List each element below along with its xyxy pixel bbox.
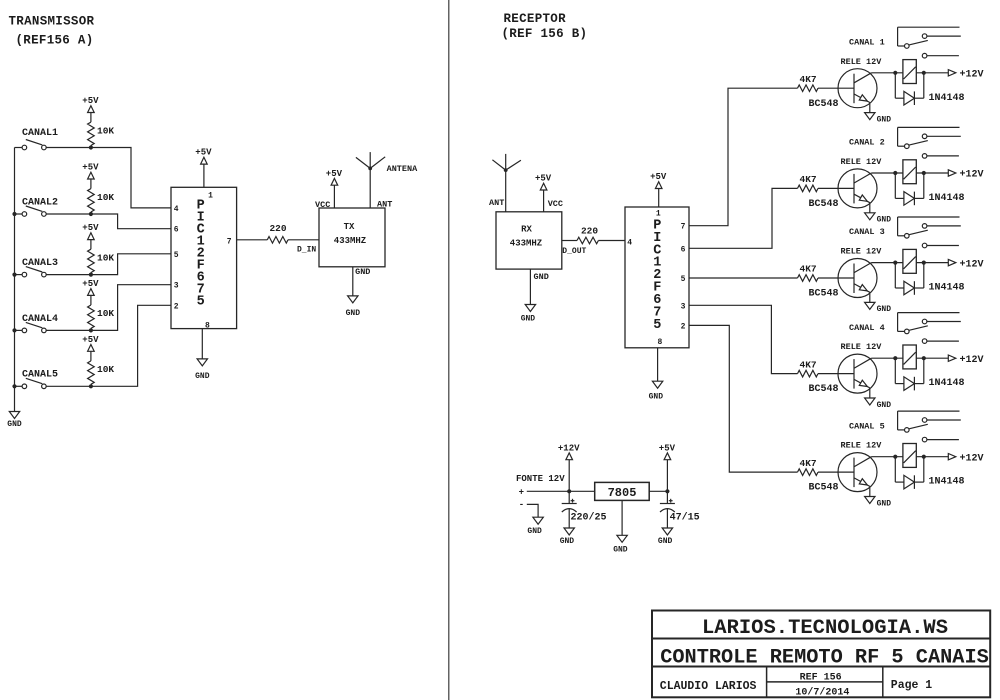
wire 4K7 to transistor base Q4 — [818, 373, 854, 375]
svg-text:GND: GND — [521, 315, 536, 324]
wire Q1 emitter to ground — [869, 103, 871, 113]
svg-text:BC548: BC548 — [809, 384, 839, 395]
ground symbol at bottom of bus — [9, 412, 19, 419]
junction R2 / switch wire — [89, 212, 93, 216]
wire 4K7 to transistor base Q2 — [818, 187, 854, 189]
svg-text:ANTENA: ANTENA — [387, 164, 419, 174]
svg-text:+5V: +5V — [650, 172, 667, 182]
junction bus / CANAL4 — [12, 328, 16, 332]
wire 4K7 to transistor base Q3 — [818, 277, 854, 279]
svg-text:ANT: ANT — [489, 198, 504, 208]
wire U1 pin 7 to resistor R6 — [237, 239, 268, 241]
svg-text:1N4148: 1N4148 — [929, 283, 965, 294]
svg-text:+12V: +12V — [558, 443, 580, 453]
svg-text:CLAUDIO LARIOS: CLAUDIO LARIOS — [660, 680, 757, 693]
switch S5 CANAL5 — [22, 384, 27, 389]
resistor R6 220 — [267, 237, 288, 244]
svg-text:+5V: +5V — [82, 163, 99, 173]
svg-text:REF 156: REF 156 — [800, 673, 842, 684]
svg-text:433MHZ: 433MHZ — [510, 239, 542, 249]
wire Q5 emitter to ground — [869, 486, 871, 496]
antenna (receiver) — [505, 154, 507, 212]
flyback diode D1 1N4148 — [894, 73, 896, 98]
svg-text:+12V: +12V — [960, 453, 984, 464]
wire bus to switch CANAL1 — [15, 147, 23, 149]
svg-text:+5V: +5V — [535, 174, 552, 184]
svg-text:+5V: +5V — [82, 223, 99, 233]
junction right of relay K2 — [922, 171, 926, 175]
junction bus / CANAL3 — [12, 273, 16, 277]
title block row separator 1 — [652, 638, 990, 640]
svg-text:10K: 10K — [97, 252, 114, 263]
svg-text:4: 4 — [627, 238, 632, 247]
wire +5V flag to resistor R2 — [90, 179, 92, 189]
svg-text:4K7: 4K7 — [800, 264, 817, 275]
wire U3 ground pin down — [621, 500, 623, 535]
wire U2 pin to channel 4 driver — [689, 305, 798, 373]
IC U2 PIC 12F675 (receiver) body — [625, 207, 689, 348]
resistor R1 10K pull-up — [88, 122, 95, 145]
svg-text:BC548: BC548 — [809, 199, 839, 210]
svg-text:ANT: ANT — [377, 200, 392, 210]
resistor R4 10K pull-up — [88, 305, 95, 328]
svg-text:GND: GND — [195, 372, 210, 381]
junction right of relay K1 — [922, 71, 926, 75]
title block vertical divider 2 — [882, 667, 884, 698]
wire relay K4 to +12V arrow — [916, 357, 948, 359]
wire Q5 collector to relay K5 — [871, 456, 903, 458]
wire Q3 collector to relay K3 — [871, 262, 903, 264]
svg-text:5: 5 — [681, 275, 686, 284]
power arrow +12V channel 3 — [948, 259, 956, 265]
svg-text:6: 6 — [174, 226, 179, 235]
svg-text:7805: 7805 — [608, 486, 637, 500]
svg-text:+5V: +5V — [82, 335, 99, 345]
wire relay K3 to +12V arrow — [916, 262, 948, 264]
svg-text:5: 5 — [197, 295, 205, 310]
relay coil K3 RELE 12V — [903, 249, 916, 273]
regulator U3 7805 body — [595, 482, 650, 500]
svg-text:GND: GND — [877, 115, 892, 124]
svg-text:+12V: +12V — [960, 355, 984, 366]
ground symbol below U2 — [652, 381, 662, 388]
svg-text:10K: 10K — [97, 308, 114, 319]
svg-text:+12V: +12V — [960, 70, 984, 81]
ground symbol channel 3 — [865, 302, 875, 309]
resistor R3 10K pull-up — [88, 249, 95, 272]
resistor 4K7 channel 5 — [798, 469, 819, 476]
wire Q1 collector to relay K1 — [871, 72, 903, 74]
svg-text:7: 7 — [227, 238, 232, 247]
ground symbol below TX — [348, 296, 358, 303]
junction left of relay K5 — [893, 455, 897, 459]
svg-text:CANAL 1: CANAL 1 — [849, 37, 885, 47]
svg-text:+5V: +5V — [82, 279, 99, 289]
junction +5V rail — [665, 489, 669, 493]
title block vertical divider 1 — [766, 667, 768, 698]
wire Q2 emitter to ground — [869, 203, 871, 213]
svg-text:BC548: BC548 — [809, 483, 839, 494]
svg-text:+12V: +12V — [960, 259, 984, 270]
svg-text:8: 8 — [205, 321, 210, 330]
svg-text:TRANSMISSOR: TRANSMISSOR — [9, 14, 95, 28]
svg-text:2: 2 — [681, 322, 686, 331]
svg-text:1: 1 — [208, 192, 213, 201]
flyback diode D3 1N4148 — [894, 263, 896, 288]
wire Q4 collector to relay K4 — [871, 357, 903, 359]
svg-text:RELE 12V: RELE 12V — [841, 342, 883, 352]
resistor 4K7 channel 2 — [798, 185, 819, 192]
svg-text:RELE 12V: RELE 12V — [841, 157, 883, 167]
junction left of relay K3 — [893, 261, 897, 265]
svg-text:TX: TX — [344, 222, 355, 232]
title block middle split line — [767, 681, 883, 683]
flyback diode D4 1N4148 — [894, 358, 896, 383]
junction R1 / switch wire — [89, 145, 93, 149]
svg-text:8: 8 — [658, 338, 663, 347]
svg-text:3: 3 — [174, 282, 179, 291]
wire switch S5 to PIC pin — [46, 305, 171, 386]
svg-text:RELE 12V: RELE 12V — [841, 57, 883, 67]
svg-text:CANAL 5: CANAL 5 — [849, 421, 885, 431]
svg-text:4K7: 4K7 — [800, 359, 817, 370]
svg-text:4: 4 — [174, 205, 179, 214]
svg-text:+5V: +5V — [659, 443, 676, 453]
svg-text:CONTROLE REMOTO RF 5 CANAIS: CONTROLE REMOTO RF 5 CANAIS — [660, 647, 989, 670]
capacitor C2 47/15 (output) — [666, 491, 668, 503]
svg-text:2: 2 — [174, 302, 179, 311]
wire +5V flag to resistor R1 — [90, 113, 92, 123]
wire switch S3 to PIC pin — [46, 254, 171, 275]
svg-text:+5V: +5V — [326, 169, 343, 179]
wire RX D_OUT to resistor R7 — [562, 240, 577, 242]
svg-text:+: + — [519, 488, 524, 498]
svg-text:-: - — [519, 500, 524, 510]
svg-text:10/7/2014: 10/7/2014 — [795, 687, 849, 699]
IC U1 PIC 12F675 (transmitter) body — [171, 187, 237, 328]
wire U2 pin 8 to ground — [657, 348, 659, 381]
wire U2 pin to channel 5 driver — [689, 325, 798, 472]
junction right of relay K5 — [922, 455, 926, 459]
svg-text:FONTE 12V: FONTE 12V — [516, 474, 565, 484]
wire U2 pin to channel 2 driver — [689, 188, 798, 248]
ground symbol below C1 — [564, 528, 574, 535]
svg-text:1N4148: 1N4148 — [929, 193, 965, 204]
svg-text:4K7: 4K7 — [800, 74, 817, 85]
flyback diode D5 1N4148 — [894, 457, 896, 482]
svg-text:RECEPTOR: RECEPTOR — [504, 12, 567, 26]
relay contacts channel 1 — [898, 26, 960, 28]
wire bus to switch CANAL2 — [15, 213, 23, 215]
wire U2 pin to channel 1 driver — [689, 88, 798, 226]
svg-text:10K: 10K — [97, 125, 114, 136]
resistor R5 10K pull-up — [88, 361, 95, 384]
ground symbol channel 1 — [865, 113, 875, 120]
module TX 433MHZ body — [319, 208, 385, 267]
wire bus to switch CANAL3 — [15, 274, 23, 276]
power arrow +12V channel 2 — [948, 170, 956, 176]
wire U2 pin to channel 3 driver — [689, 277, 798, 279]
svg-text:GND: GND — [877, 499, 892, 508]
junction R5 / switch wire — [89, 384, 93, 388]
svg-text:220: 220 — [581, 225, 598, 236]
svg-text:GND: GND — [658, 537, 673, 546]
junction bus / CANAL5 — [12, 384, 16, 388]
ground bus vertical wire (left) — [14, 148, 16, 412]
ground symbol below RX — [525, 305, 535, 312]
transistor Q2 BC548 — [838, 169, 877, 208]
junction left of relay K4 — [893, 356, 897, 360]
title block row separator 2 — [652, 666, 990, 668]
ground symbol below C2 — [662, 528, 672, 535]
resistor R7 220 — [577, 237, 598, 244]
wire bus to switch CANAL4 — [15, 329, 23, 331]
svg-text:RELE 12V: RELE 12V — [841, 441, 883, 451]
switch S4 CANAL4 — [22, 328, 27, 333]
svg-text:6: 6 — [681, 245, 686, 254]
svg-text:1N4148: 1N4148 — [929, 93, 965, 104]
relay contacts channel 3 — [898, 216, 960, 218]
wire +5V flag to resistor R4 — [90, 295, 92, 305]
svg-text:BC548: BC548 — [809, 289, 839, 300]
wire TX GND down — [352, 267, 354, 296]
junction right of relay K3 — [922, 261, 926, 265]
wire bus to switch CANAL5 — [15, 385, 23, 387]
svg-text:GND: GND — [7, 420, 22, 429]
capacitor C1 220/25 (input) — [568, 491, 570, 503]
transistor Q4 BC548 — [838, 354, 877, 393]
resistor 4K7 channel 3 — [798, 275, 819, 282]
wire +5V flag to U1 top — [203, 164, 205, 187]
svg-text:(REF156 A): (REF156 A) — [16, 34, 94, 48]
wire +5V flag to resistor R5 — [90, 351, 92, 361]
wire supply + input to 7805 — [527, 490, 595, 492]
junction left of relay K1 — [893, 71, 897, 75]
flyback diode D2 1N4148 — [894, 173, 896, 198]
svg-text:10K: 10K — [97, 192, 114, 203]
wire relay K2 to +12V arrow — [916, 172, 948, 174]
svg-text:GND: GND — [560, 537, 575, 546]
wire +5V flag to U2 top — [658, 189, 660, 208]
svg-text:GND: GND — [877, 401, 892, 410]
power arrow +12V channel 5 — [948, 454, 956, 460]
relay coil K4 RELE 12V — [903, 345, 916, 369]
wire supply - input to ground — [527, 504, 538, 517]
svg-text:Page 1: Page 1 — [891, 679, 933, 692]
svg-text:CANAL 3: CANAL 3 — [849, 227, 885, 237]
power arrow +12V channel 1 — [948, 70, 956, 76]
svg-text:CANAL1: CANAL1 — [22, 128, 58, 139]
svg-text:5: 5 — [174, 251, 179, 260]
svg-text:GND: GND — [649, 392, 664, 401]
svg-text:CANAL 4: CANAL 4 — [849, 323, 885, 333]
svg-text:1N4148: 1N4148 — [929, 378, 965, 389]
junction left of relay K2 — [893, 171, 897, 175]
relay contacts channel 2 — [898, 126, 960, 128]
wire +5V flag to resistor R3 — [90, 240, 92, 250]
relay coil K1 RELE 12V — [903, 60, 916, 84]
svg-text:VCC: VCC — [315, 200, 330, 210]
relay contacts channel 5 — [898, 410, 960, 412]
resistor 4K7 channel 1 — [798, 85, 819, 92]
svg-text:GND: GND — [877, 216, 892, 225]
sheet divider line between transmitter and receiver — [448, 0, 450, 700]
relay coil K5 RELE 12V — [903, 444, 916, 468]
junction R4 / switch wire — [89, 328, 93, 332]
switch S1 CANAL1 — [22, 145, 27, 150]
ground symbol below U3 — [617, 535, 627, 542]
wire Q4 emitter to ground — [869, 388, 871, 398]
svg-text:(REF 156 B): (REF 156 B) — [502, 27, 588, 41]
svg-text:GND: GND — [877, 305, 892, 314]
relay coil K2 RELE 12V — [903, 160, 916, 184]
svg-text:GND: GND — [613, 546, 628, 555]
svg-text:CANAL 2: CANAL 2 — [849, 138, 885, 148]
svg-text:5: 5 — [653, 318, 661, 333]
ground symbol below U1 — [197, 359, 207, 366]
wire +5V flag to TX VCC — [333, 185, 335, 208]
wire +5V flag to RX VCC — [543, 190, 545, 212]
junction +12V rail — [567, 489, 571, 493]
ground symbol channel 4 — [865, 398, 875, 405]
wire switch S4 to PIC pin — [46, 285, 171, 331]
svg-text:GND: GND — [346, 309, 361, 318]
ground symbol channel 2 — [865, 213, 875, 220]
wire RX GND down — [529, 269, 531, 304]
transistor Q5 BC548 — [838, 453, 877, 492]
svg-text:10K: 10K — [97, 364, 114, 375]
switch S2 CANAL2 — [22, 212, 27, 217]
svg-text:7: 7 — [681, 223, 686, 232]
resistor R2 10K pull-up — [88, 189, 95, 212]
svg-text:220: 220 — [269, 223, 286, 234]
resistor 4K7 channel 4 — [798, 370, 819, 377]
svg-text:BC548: BC548 — [809, 99, 839, 110]
module RX 433MHZ body — [496, 212, 562, 269]
wire R7 to U2 pin 4 — [598, 240, 625, 242]
transistor Q3 BC548 — [838, 259, 877, 298]
svg-text:VCC: VCC — [548, 199, 563, 209]
ground symbol supply minus — [533, 517, 543, 524]
svg-text:RELE 12V: RELE 12V — [841, 247, 883, 257]
svg-text:47/15: 47/15 — [670, 512, 700, 524]
relay contacts channel 4 — [898, 312, 960, 314]
junction right of relay K4 — [922, 356, 926, 360]
svg-text:D_OUT: D_OUT — [562, 247, 586, 256]
svg-text:220/25: 220/25 — [571, 512, 607, 524]
svg-text:1N4148: 1N4148 — [929, 477, 965, 488]
wire U1 pin 8 to ground — [201, 329, 203, 359]
transistor Q1 BC548 — [838, 69, 877, 108]
wire switch S1 to PIC pin — [46, 148, 171, 208]
svg-text:4K7: 4K7 — [800, 174, 817, 185]
wire R6 to TX module D_IN — [288, 239, 319, 241]
switch S3 CANAL3 — [22, 272, 27, 277]
svg-text:GND: GND — [527, 527, 542, 536]
wire switch S2 to PIC pin — [46, 214, 171, 229]
svg-text:GND: GND — [355, 267, 370, 277]
ground symbol channel 5 — [865, 497, 875, 504]
svg-text:+5V: +5V — [82, 96, 99, 106]
wire +5V flag down to output rail — [666, 460, 668, 492]
junction bus / CANAL2 — [12, 212, 16, 216]
svg-text:3: 3 — [681, 302, 686, 311]
svg-text:1: 1 — [656, 210, 661, 219]
svg-text:GND: GND — [534, 272, 549, 282]
wire U3 output to +5V rail — [649, 490, 667, 492]
wire +12V flag down to input rail — [568, 460, 570, 492]
wire Q3 emitter to ground — [869, 292, 871, 302]
wire Q2 collector to relay K2 — [871, 172, 903, 174]
power arrow +12V channel 4 — [948, 355, 956, 361]
wire 4K7 to transistor base Q1 — [818, 87, 854, 89]
svg-text:RX: RX — [521, 225, 532, 235]
svg-text:D_IN: D_IN — [297, 245, 316, 254]
antenna ANTENA (transmitter) — [369, 152, 371, 208]
junction R3 / switch wire — [89, 273, 93, 277]
title block outer frame — [652, 611, 990, 698]
wire relay K5 to +12V arrow — [916, 456, 948, 458]
svg-text:+12V: +12V — [960, 170, 984, 181]
svg-text:433MHZ: 433MHZ — [334, 236, 366, 246]
svg-text:LARIOS.TECNOLOGIA.WS: LARIOS.TECNOLOGIA.WS — [702, 617, 948, 640]
svg-text:4K7: 4K7 — [800, 458, 817, 469]
wire 4K7 to transistor base Q5 — [818, 471, 854, 473]
wire relay K1 to +12V arrow — [916, 72, 948, 74]
svg-text:+5V: +5V — [195, 148, 212, 158]
